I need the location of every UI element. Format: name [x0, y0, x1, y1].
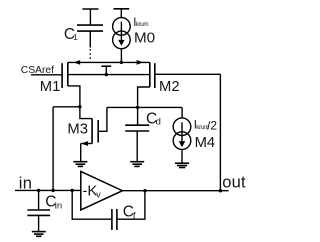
svg-text:/2: /2: [207, 118, 217, 132]
supply terminal above C1: [82, 9, 98, 25]
op-amp Kv: [81, 171, 123, 210]
svg-text:M0: M0: [134, 30, 155, 47]
node left rail junction: [51, 189, 54, 192]
node M0 rail junction: [120, 61, 123, 64]
wire M2 gate to out rail: [155, 73, 221, 75]
dashed wire C1 to source rail: [89, 31, 91, 48]
svg-text:in: in: [55, 200, 62, 211]
wire bulk rail: [68, 74, 150, 76]
ground Cin: [32, 232, 46, 237]
wire CSAref gate lead: [31, 74, 62, 76]
current source M0: [113, 18, 131, 63]
current arrow left: [74, 60, 81, 65]
svg-text:krum: krum: [136, 21, 149, 28]
capacitor Cf: [112, 209, 117, 230]
svg-text:-K: -K: [82, 182, 97, 199]
ground Cd: [130, 162, 144, 167]
node mid junction: [136, 106, 139, 109]
label Ikrum/2: [194, 118, 218, 132]
svg-text:CSAref: CSAref: [21, 65, 54, 76]
current arrow right: [137, 60, 144, 65]
svg-text:v: v: [96, 190, 101, 200]
wire M1 drain to in node: [53, 106, 80, 108]
transistor M3: [80, 107, 107, 162]
node Cf out junction: [143, 189, 146, 192]
wire common source rail: [68, 61, 150, 63]
svg-text:M4: M4: [195, 135, 216, 151]
capacitor Cd: [125, 107, 149, 161]
node M1 drain junction: [78, 105, 81, 108]
wire Cf feedback left: [72, 190, 112, 219]
node Cin junction: [37, 189, 40, 192]
wire in: [15, 189, 81, 191]
supply terminal above M0: [113, 9, 129, 18]
wire mid node: [107, 106, 182, 108]
svg-text:d: d: [156, 117, 161, 128]
wire Cf feedback right: [117, 191, 145, 220]
bulk tap: [101, 66, 111, 74]
wire right rail: [219, 74, 221, 190]
label Ikrum: [133, 17, 148, 29]
transistor M1: [62, 62, 80, 106]
svg-text:M2: M2: [159, 79, 180, 95]
ground M3: [73, 162, 87, 167]
label -Kv: [82, 182, 101, 199]
current source M4: [173, 107, 191, 163]
transistor M2: [138, 62, 155, 107]
capacitor C1: [77, 25, 103, 31]
label Cf: [123, 204, 136, 222]
capacitor Cin: [27, 190, 50, 231]
node Cf tap junction: [71, 189, 74, 192]
label Cd: [146, 111, 161, 128]
node out rail junction: [219, 189, 222, 192]
svg-text:f: f: [133, 211, 136, 222]
ground M4: [175, 163, 189, 167]
svg-text:1: 1: [73, 33, 78, 42]
svg-text:out: out: [222, 174, 246, 192]
node bulk tap junction: [105, 73, 108, 76]
wire left rail: [52, 107, 54, 191]
wire out: [122, 190, 228, 192]
svg-text:in: in: [19, 174, 33, 192]
svg-text:M3: M3: [67, 121, 88, 137]
label C1: [64, 26, 78, 43]
svg-text:M1: M1: [40, 79, 61, 95]
label Cin: [45, 194, 62, 212]
